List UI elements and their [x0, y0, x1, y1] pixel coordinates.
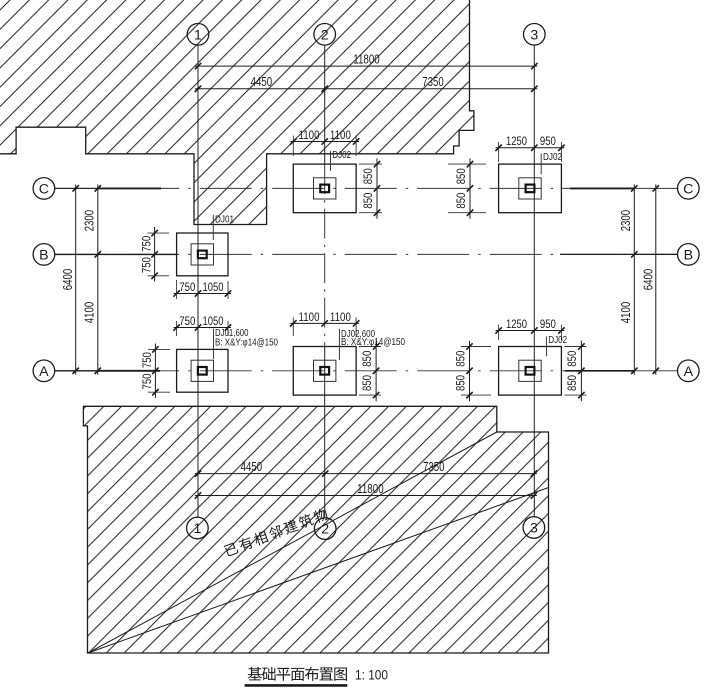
label DJ01 (pad B1) leader: [212, 215, 214, 240]
pad DJ02-A3 outer: [499, 347, 562, 396]
dimension 11800 (bottom): [195, 495, 537, 497]
axis line C (horizontal): [55, 187, 678, 189]
outline: existing building (top): [0, 0, 474, 225]
svg-text:1: 1: [193, 521, 201, 537]
label DJ02 (pad C3) leader: [540, 153, 542, 174]
svg-text:11800: 11800: [357, 482, 384, 496]
axis bubble C (right): [678, 178, 700, 200]
axis bubble 1 (bottom): [187, 517, 209, 539]
svg-text:850: 850: [361, 168, 375, 184]
pad DJ02-A3 column: [526, 367, 535, 375]
axis bubble A (right): [678, 360, 700, 382]
svg-text:4100: 4100: [82, 302, 96, 324]
svg-text:DJ01: DJ01: [215, 214, 234, 225]
dimension 850/850 right of pad A2: [375, 341, 377, 402]
svg-text:DJ02: DJ02: [548, 335, 567, 346]
svg-text:6400: 6400: [641, 269, 655, 291]
svg-text:C: C: [683, 181, 693, 197]
svg-text:1100: 1100: [330, 128, 351, 142]
svg-text:1100: 1100: [330, 310, 351, 324]
dimension 1250/950 above pad A3: [496, 330, 565, 332]
dimension 850/850 left of pad A3: [469, 341, 471, 402]
axis bubble C (left): [33, 178, 55, 200]
svg-text:850: 850: [454, 168, 468, 184]
pad DJ01-B1 pedestal: [191, 244, 213, 265]
svg-text:950: 950: [540, 134, 556, 148]
svg-text:DJ02: DJ02: [332, 150, 351, 161]
svg-text:1250: 1250: [506, 134, 527, 148]
svg-text:850: 850: [565, 350, 579, 366]
svg-text:750: 750: [139, 236, 153, 252]
pad DJ02-C3 column: [526, 185, 535, 193]
pad DJ01-A1 pedestal: [191, 360, 213, 381]
svg-text:750: 750: [179, 280, 195, 294]
dimension 6400 (left): [75, 184, 77, 374]
svg-text:2300: 2300: [619, 210, 633, 232]
svg-text:B: B: [684, 248, 693, 264]
pad DJ02-C2 pedestal: [314, 178, 336, 199]
pad DJ02-A3 pedestal: [519, 360, 541, 381]
axis line 3 (vertical): [533, 45, 535, 517]
svg-text:B: B: [39, 248, 48, 264]
svg-text:B: X&Y:φ14@150: B: X&Y:φ14@150: [215, 337, 278, 348]
dimension 4450 / 7350 (top): [195, 88, 537, 90]
svg-text:2300: 2300: [82, 210, 96, 232]
dimension 2300 / 4100 (right): [633, 184, 635, 374]
axis bubble B (left): [33, 244, 55, 266]
svg-text:950: 950: [540, 317, 556, 331]
dimension 11800 (top): [195, 65, 537, 67]
svg-text:DJ02: DJ02: [543, 152, 562, 163]
label: existing adjacent building (rotated): [223, 507, 329, 557]
svg-text:3: 3: [530, 27, 538, 43]
title: foundation plan layout: [248, 667, 262, 681]
svg-text:1: 1: [194, 27, 202, 43]
wedge line upper: [88, 432, 497, 653]
svg-text:750: 750: [140, 352, 154, 368]
dimension 750/1050 below pad B1: [174, 293, 231, 295]
hatch region: existing building (bottom): [83, 406, 548, 653]
svg-text:4450: 4450: [241, 460, 263, 474]
dimension 750/750 left of pad B1: [154, 227, 156, 282]
pad DJ02-C2 outer: [293, 164, 356, 213]
label DJ01,600 + rebar (pad A1) leader: [213, 329, 215, 359]
svg-text:1250: 1250: [506, 317, 527, 331]
svg-text:1: 100: 1: 100: [355, 668, 388, 683]
axis bubble 1 (top): [187, 24, 209, 46]
svg-text:750: 750: [179, 314, 195, 328]
axis bubble B (right): [678, 244, 700, 266]
svg-text:750: 750: [140, 373, 154, 389]
svg-text:1100: 1100: [299, 128, 320, 142]
svg-text:850: 850: [360, 350, 374, 366]
svg-text:1050: 1050: [203, 314, 224, 328]
pad DJ02-C3 outer: [499, 164, 562, 213]
svg-text:4450: 4450: [251, 75, 273, 89]
svg-text:850: 850: [453, 375, 467, 391]
axis line 1 (vertical): [197, 45, 199, 517]
dimension 2300 / 4100 (left): [97, 184, 99, 374]
svg-text:850: 850: [361, 192, 375, 208]
dimension 850/850 left of pad C3: [469, 158, 471, 218]
dimension 750/1050 above pad A1: [174, 327, 231, 329]
svg-text:3: 3: [530, 521, 538, 537]
svg-text:850: 850: [454, 192, 468, 208]
axis bubble 2 (bottom): [314, 518, 336, 540]
pad DJ01-A1 column: [198, 367, 207, 375]
svg-text:1050: 1050: [203, 280, 224, 294]
dimension 4450 / 7350 (bottom): [195, 473, 537, 475]
svg-text:4100: 4100: [619, 302, 633, 324]
svg-text:850: 850: [360, 375, 374, 391]
dimension 850/850 right of pad A3: [580, 341, 582, 402]
dimension 1100/1100 above pad C2: [290, 141, 359, 143]
svg-text:A: A: [39, 364, 49, 380]
wedge line lower: [88, 488, 549, 654]
pad DJ02-A2 pedestal: [314, 360, 336, 381]
axis bubble 2 (top): [314, 24, 336, 46]
svg-text:850: 850: [453, 350, 467, 366]
pad DJ02-A2 outer: [293, 347, 356, 396]
pad DJ01-B1 column: [198, 251, 207, 259]
dimension 6400 (right): [655, 184, 657, 374]
axis line B (horizontal): [55, 253, 678, 255]
dimension 1100/1100 above pad A2: [290, 322, 359, 324]
svg-text:850: 850: [565, 375, 579, 391]
axis bubble A (left): [33, 360, 55, 382]
svg-text:B: X&Y:φ14@150: B: X&Y:φ14@150: [341, 337, 405, 348]
axis line A (horizontal): [55, 370, 678, 372]
svg-text:1100: 1100: [299, 310, 320, 324]
pad DJ01-A1 outer: [177, 349, 228, 392]
svg-text:750: 750: [139, 257, 153, 273]
svg-text:6400: 6400: [61, 269, 75, 291]
axis bubble 3 (top): [524, 24, 546, 46]
svg-text:2: 2: [321, 522, 329, 538]
label DJ02,600 + rebar (pad A2) leader: [338, 329, 340, 360]
axis line 2 (vertical): [324, 45, 326, 164]
svg-text:A: A: [684, 364, 694, 380]
pad DJ01-B1 outer: [177, 233, 228, 276]
pad DJ02-C2 column: [320, 185, 329, 193]
axis bubble 3 (bottom): [523, 517, 545, 539]
dimension 750/750 left of pad A1: [154, 344, 156, 399]
svg-text:7350: 7350: [423, 460, 445, 474]
dimension 1250/950 above pad C3: [496, 147, 565, 149]
svg-text:C: C: [39, 182, 49, 198]
pad DJ02-C3 pedestal: [519, 178, 541, 199]
dimension 850/850 right of pad C2: [376, 158, 378, 218]
label DJ02 (pad C2) leader: [330, 151, 332, 171]
svg-text:7350: 7350: [422, 75, 444, 89]
hatch region: existing building (top): [0, 0, 474, 225]
svg-text:11800: 11800: [353, 53, 380, 67]
pad DJ02-A2 column: [320, 367, 329, 375]
svg-text:2: 2: [321, 27, 329, 43]
label DJ02 (pad A3) leader: [545, 336, 547, 356]
